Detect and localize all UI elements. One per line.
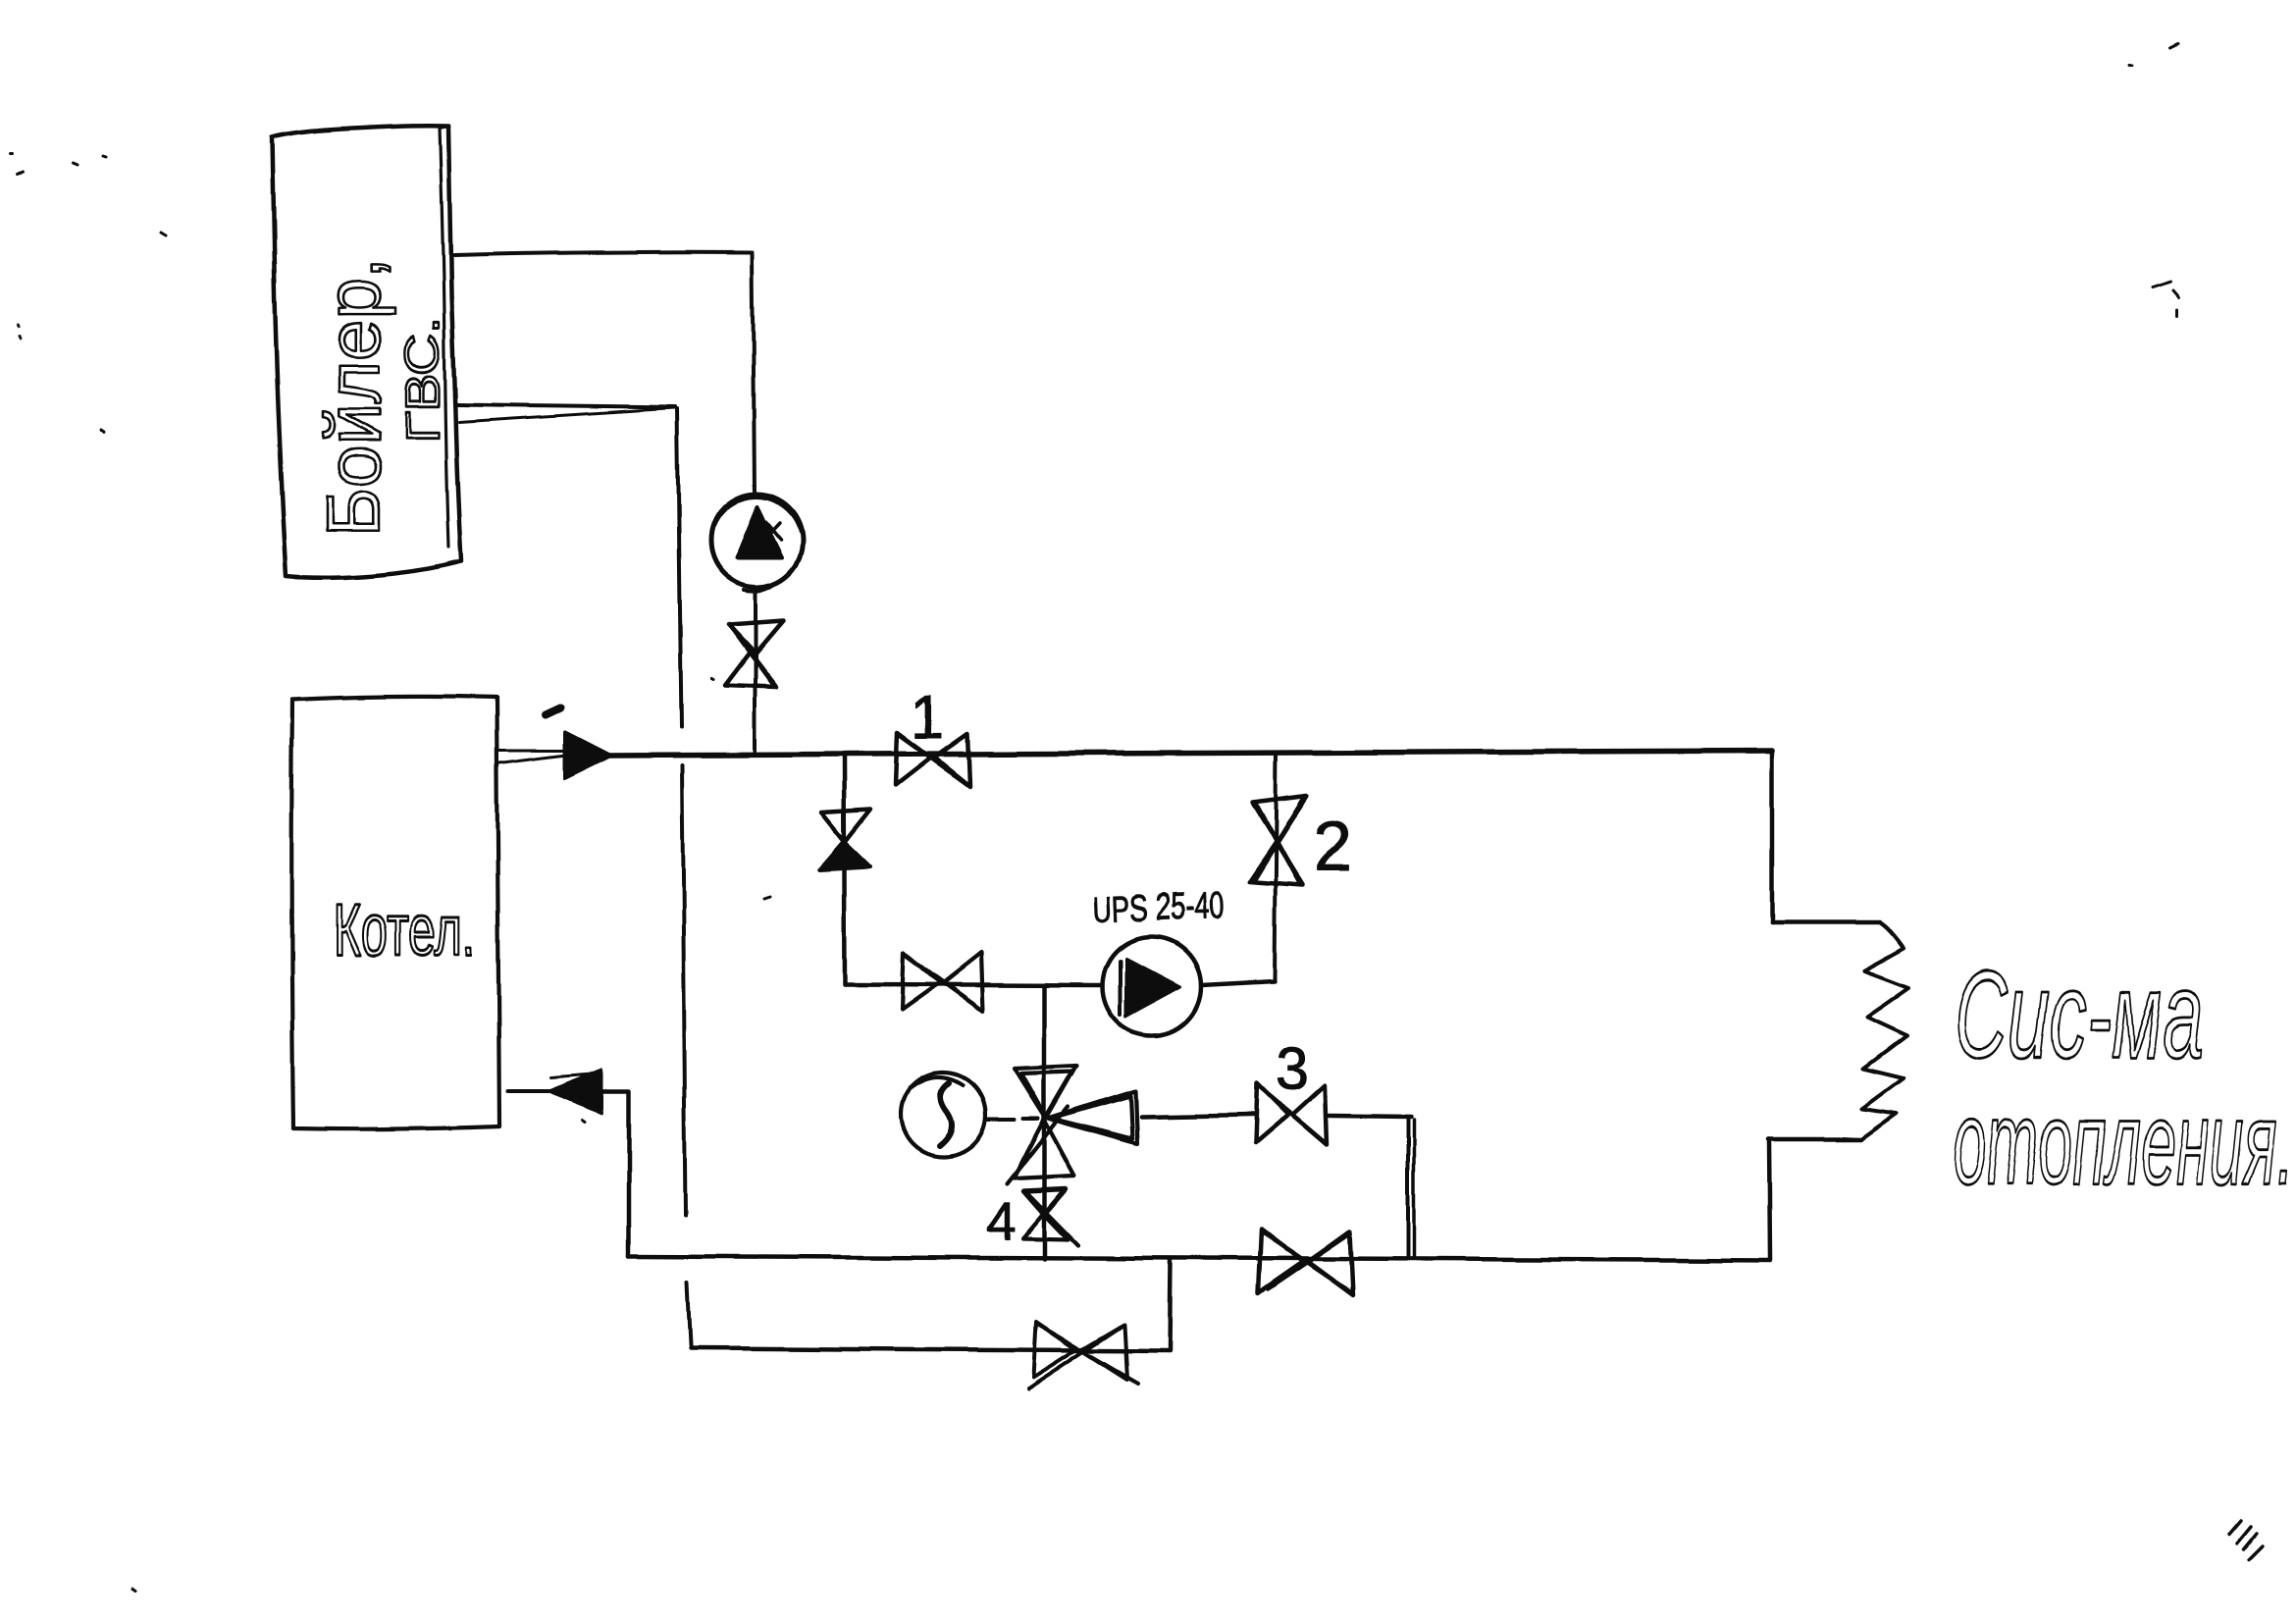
wire: bypass up-connect xyxy=(1170,1260,1171,1351)
svg-text:Бойлер,: Бойлер, xyxy=(310,257,396,536)
svg-text:4: 4 xyxy=(986,1192,1016,1251)
pipe: valve 3 to corner xyxy=(1329,1115,1411,1116)
pump P1 (DHW circulation pump) xyxy=(710,495,803,591)
wire: up to valve 2 xyxy=(1275,753,1277,981)
bottom bypass pipe xyxy=(690,1348,1169,1351)
wire: return corner up to boiler xyxy=(627,1092,632,1256)
svg-text:ГВС.: ГВС. xyxy=(397,317,449,443)
wire: DHW return vertical xyxy=(677,409,681,727)
svg-text:UPS 25-40: UPS 25-40 xyxy=(1092,885,1225,931)
wire: DHW pump vertical line xyxy=(753,252,755,495)
boiler DHW tank box (Бойлер ГВС) xyxy=(272,126,461,578)
pipe: DHW return from tank (doubled sketch line) xyxy=(457,404,675,407)
svg-text:1: 1 xyxy=(911,684,944,752)
dashed stem actuator to valve xyxy=(987,1119,1038,1120)
supply outlet lines from boiler xyxy=(499,750,565,753)
svg-text:отопления.: отопления. xyxy=(1953,1077,2294,1209)
valve 3 xyxy=(1255,1083,1327,1144)
pipe: DHW supply from tank to pump line xyxy=(454,252,753,255)
valve 1 (supply) xyxy=(895,733,969,786)
valve 4 xyxy=(1022,1189,1077,1245)
svg-text:Сис-ма: Сис-ма xyxy=(1955,946,2204,1084)
wire: down from branch to 3-way valve xyxy=(1042,985,1047,1259)
wire: corner down (doubled) xyxy=(1406,1116,1410,1259)
valve on mixing branch xyxy=(902,952,983,1011)
check valve (filled bottom) xyxy=(819,810,870,869)
valve on DHW pump line xyxy=(725,621,783,687)
three-way mixing valve xyxy=(1007,1066,1137,1184)
main supply pipe xyxy=(609,751,1772,756)
svg-text:Котел.: Котел. xyxy=(333,889,476,970)
mixing branch pipe xyxy=(845,984,1103,985)
svg-text:3: 3 xyxy=(1276,1036,1308,1102)
pump UPS 25-40 xyxy=(1103,937,1201,1035)
return pipe xyxy=(629,1256,1770,1261)
valve on bypass xyxy=(1028,1323,1138,1388)
actuator head (circle with squiggle) xyxy=(902,1073,986,1157)
radiator (heating system zigzag) xyxy=(1844,922,1908,1139)
pipe: 3-way valve to valve 3 xyxy=(1141,1115,1253,1117)
valve 2 xyxy=(1249,796,1307,885)
return arrow into boiler xyxy=(548,1070,602,1113)
big valve on return xyxy=(1258,1230,1353,1295)
wire: supply right corner down xyxy=(1770,751,1775,922)
svg-text:2: 2 xyxy=(1313,809,1352,887)
supply arrow xyxy=(565,732,611,778)
wire: branch down from supply xyxy=(844,756,845,984)
boiler box (Котел) xyxy=(291,696,499,1129)
wire: radiator bottom to return xyxy=(1769,1137,1861,1142)
